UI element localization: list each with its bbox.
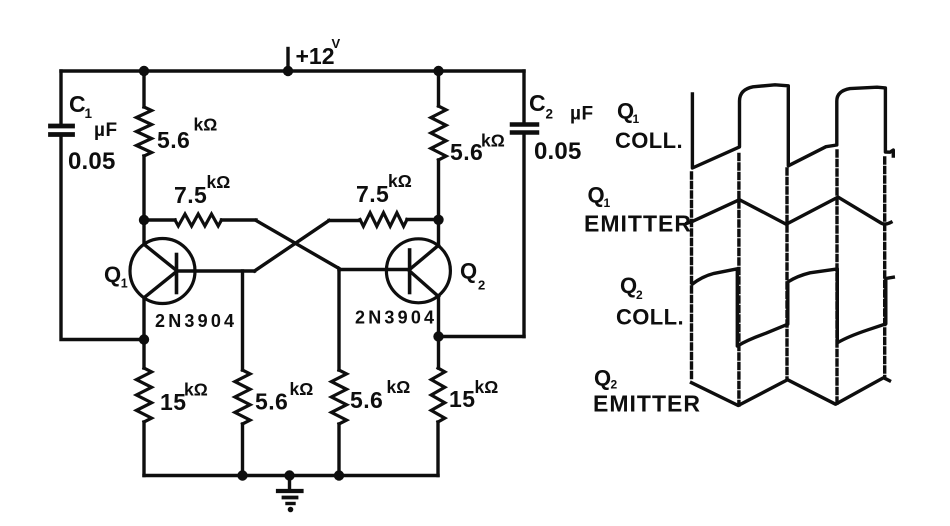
svg-text:1: 1 [604,196,611,210]
svg-text:7.5: 7.5 [174,182,207,208]
svg-text:0.05: 0.05 [68,148,116,175]
svg-text:15: 15 [160,389,186,415]
svg-text:7.5: 7.5 [356,181,389,207]
svg-text:2N3904: 2N3904 [155,311,237,331]
svg-text:15: 15 [449,386,475,412]
svg-text:5.6: 5.6 [157,127,190,153]
svg-text:2: 2 [546,107,554,122]
svg-text:Q: Q [104,262,121,287]
svg-text:Q: Q [460,259,477,284]
svg-text:2N3904: 2N3904 [355,308,437,328]
svg-text:1: 1 [633,112,640,126]
svg-text:Q: Q [620,273,637,298]
svg-text:V: V [332,36,341,51]
svg-text:COLL.: COLL. [616,305,684,330]
svg-text:Q: Q [588,183,605,208]
svg-text:Q: Q [594,366,611,391]
svg-text:µF: µF [94,120,118,141]
svg-text:5.6: 5.6 [350,387,383,413]
svg-text:2: 2 [636,288,643,302]
svg-text:µF: µF [570,104,594,125]
svg-text:kΩ: kΩ [207,172,231,192]
svg-text:kΩ: kΩ [475,377,499,397]
svg-text:kΩ: kΩ [290,379,314,399]
svg-text:C: C [529,90,546,116]
svg-text:1: 1 [121,277,128,291]
svg-text:2: 2 [478,278,485,293]
svg-text:5.6: 5.6 [255,389,288,415]
svg-text:1: 1 [85,106,93,121]
svg-text:kΩ: kΩ [194,115,218,135]
svg-text:kΩ: kΩ [184,380,208,400]
svg-text:C: C [69,91,86,117]
svg-text:+12: +12 [296,43,335,69]
svg-text:kΩ: kΩ [388,171,412,191]
svg-text:COLL.: COLL. [615,128,683,153]
svg-text:5.6: 5.6 [450,139,483,165]
svg-text:EMITTER: EMITTER [593,390,701,416]
svg-text:EMITTER: EMITTER [584,210,692,236]
svg-text:kΩ: kΩ [387,377,411,397]
svg-text:0.05: 0.05 [534,138,582,165]
svg-text:kΩ: kΩ [481,131,505,151]
